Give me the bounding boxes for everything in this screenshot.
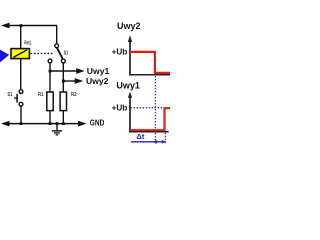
marker dashed vertical t1 (154, 76, 156, 145)
axis Uwy1 vertical (129, 96, 131, 132)
wire Uwy2 tap (63, 80, 75, 82)
wire right throw down (62, 63, 64, 92)
svg-text:+Ub: +Ub (112, 48, 128, 57)
wire Uwy1 tap (50, 70, 77, 72)
marker dashed vertical t2 (164, 133, 166, 145)
wire R2 bottom (62, 111, 64, 124)
axis Uwy1 baseline (129, 131, 169, 133)
node junction R1/rail (49, 122, 52, 125)
arrowhead Uwy2 (75, 78, 84, 84)
node junction Uwy1 tap (49, 70, 52, 73)
wire left rail above relay (20, 26, 22, 49)
arrowhead Uwy1 (76, 68, 85, 74)
arrowhead GND right (78, 121, 87, 127)
waveform Uwy1 red step (130, 108, 170, 130)
wire top supply rail (3, 25, 57, 27)
svg-text:GND: GND (90, 118, 105, 128)
mechanical link dashed relay to S1 (31, 52, 53, 54)
svg-text:R1: R1 (38, 92, 44, 98)
svg-text:Rel1: Rel1 (24, 41, 31, 47)
node junction R2/rail (62, 122, 65, 125)
wire ground rail (3, 123, 79, 125)
blue pointer arrow (0, 48, 9, 63)
marker dotted +Ub level (131, 107, 164, 109)
relay Rel1 coil (11, 49, 29, 59)
svg-text:R2: R2 (71, 92, 77, 98)
resistor R1 (47, 92, 53, 111)
waveform Uwy2 red step (130, 52, 170, 73)
switch S1 changeover common contact (55, 44, 59, 48)
switch S1 lever (57, 48, 63, 60)
svg-text:Uwy1: Uwy1 (116, 80, 140, 90)
axis Uwy2 baseline (129, 74, 170, 76)
wire left throw down (49, 63, 51, 92)
svg-text:Δt: Δt (136, 132, 144, 141)
svg-text:+Ub: +Ub (112, 104, 128, 113)
wire top rail corner down to switch common (56, 26, 58, 44)
node junction pushbutton/rail (20, 122, 23, 125)
ground symbol (52, 124, 62, 135)
arrowhead left on ground rail (1, 121, 10, 127)
switch S1 throw contact right (61, 59, 65, 63)
node junction Uwy2 tap (62, 80, 65, 83)
wire R1 bottom (49, 111, 51, 124)
node junction ground stub (56, 122, 59, 125)
wire pushbutton to ground rail (20, 106, 22, 123)
wire relay to pushbutton (20, 59, 22, 90)
arrowhead left on top rail (1, 23, 10, 29)
svg-text:S1: S1 (64, 50, 69, 56)
arrowhead axis Uwy1 (128, 92, 132, 98)
svg-text:Uwy1: Uwy1 (87, 66, 110, 76)
svg-text:S1: S1 (7, 92, 12, 98)
resistor R2 (60, 92, 66, 111)
node junction top rail to relay (20, 24, 23, 27)
axis Uwy2 vertical (129, 40, 131, 75)
pushbutton S1 (14, 90, 23, 106)
svg-text:Uwy2: Uwy2 (117, 21, 141, 31)
switch S1 throw contact left (48, 59, 52, 63)
dimension arrow delta t (131, 140, 166, 144)
svg-text:Uwy2: Uwy2 (86, 76, 109, 86)
arrowhead axis Uwy2 (128, 35, 132, 42)
